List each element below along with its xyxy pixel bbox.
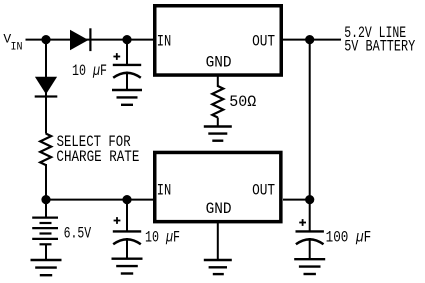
svg-text:100 µF: 100 µF xyxy=(326,229,372,247)
svg-text:5V BATTERY: 5V BATTERY xyxy=(344,37,415,55)
svg-text:50Ω: 50Ω xyxy=(229,93,256,111)
svg-text:IN: IN xyxy=(11,41,23,53)
svg-text:IN: IN xyxy=(157,33,172,51)
svg-text:CHARGE RATE: CHARGE RATE xyxy=(56,148,139,166)
svg-text:GND: GND xyxy=(206,54,232,72)
svg-text:OUT: OUT xyxy=(252,33,275,51)
svg-text:IN: IN xyxy=(157,182,172,200)
svg-text:OUT: OUT xyxy=(252,182,275,200)
svg-text:10 µF: 10 µF xyxy=(72,62,107,80)
svg-text:GND: GND xyxy=(206,200,232,218)
svg-text:10 µF: 10 µF xyxy=(145,228,180,246)
svg-text:6.5V: 6.5V xyxy=(64,224,92,242)
